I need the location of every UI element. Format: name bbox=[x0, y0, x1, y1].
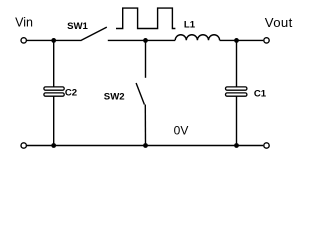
wire SW1 to L1 bbox=[108, 39, 175, 41]
wire L1 to Vout bbox=[220, 39, 264, 41]
pulse waveform SW1 drive bbox=[116, 8, 175, 28]
switch SW1 bbox=[81, 27, 107, 40]
svg-text:SW2: SW2 bbox=[104, 92, 125, 103]
svg-text:C1: C1 bbox=[254, 89, 267, 100]
inductor L1 bbox=[175, 35, 219, 41]
wire 0V rail bbox=[27, 145, 263, 147]
terminal 0V left bbox=[21, 143, 26, 148]
switch SW2 bbox=[136, 40, 145, 145]
terminal Vin bbox=[21, 38, 26, 43]
junction J3 C1 tap bbox=[234, 38, 239, 43]
junction J2 SW2 tap bbox=[143, 38, 148, 43]
svg-text:0V: 0V bbox=[174, 124, 189, 138]
capacitor C1 bbox=[226, 40, 247, 145]
terminal Vout bbox=[264, 38, 269, 43]
wire Vin to SW1 bbox=[27, 39, 82, 41]
terminal 0V right bbox=[264, 143, 269, 148]
svg-text:Vin: Vin bbox=[15, 16, 33, 30]
svg-text:SW1: SW1 bbox=[67, 21, 88, 32]
junction J4 C2 on rail bbox=[51, 143, 56, 148]
junction J1 C2 tap bbox=[51, 38, 56, 43]
svg-text:L1: L1 bbox=[184, 19, 196, 30]
junction J5 SW2 on rail bbox=[143, 143, 148, 148]
capacitor C2 bbox=[44, 40, 64, 145]
junction J6 C1 on rail bbox=[234, 143, 239, 148]
svg-text:C2: C2 bbox=[65, 88, 77, 99]
svg-text:Vout: Vout bbox=[265, 15, 293, 30]
